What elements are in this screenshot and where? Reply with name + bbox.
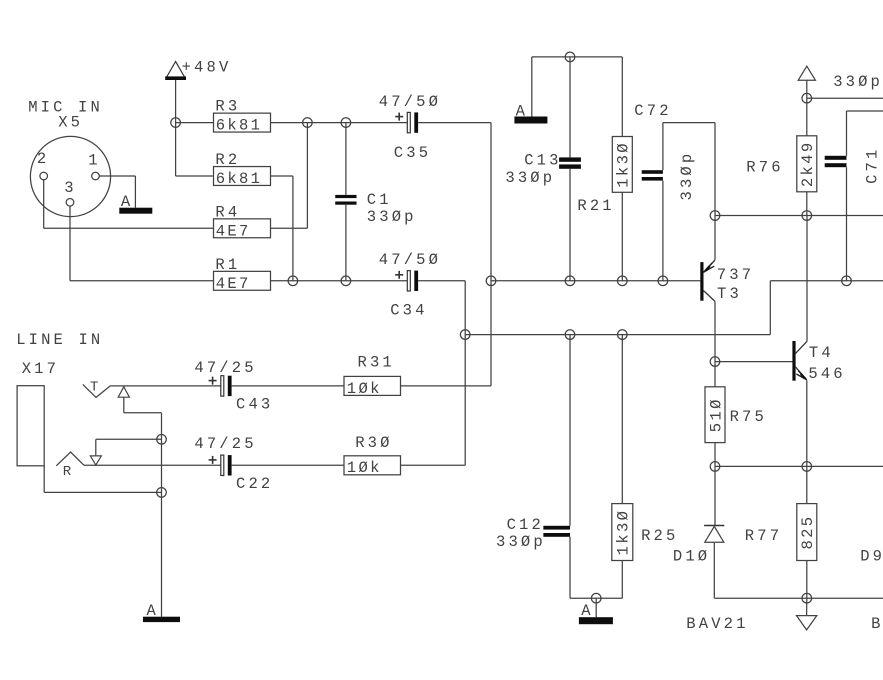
svg-text:R21: R21 bbox=[577, 197, 614, 215]
X5 pin 3 bbox=[64, 179, 76, 206]
label MIC IN bbox=[28, 98, 103, 116]
diode D10 bbox=[673, 526, 724, 566]
node R1/C1 bbox=[341, 276, 351, 286]
wire R21 bottom bbox=[621, 192, 623, 280]
svg-text:R75: R75 bbox=[730, 408, 767, 426]
resistor R4 bbox=[214, 203, 271, 240]
node supply/330p row bbox=[802, 93, 812, 103]
svg-text:R3Ø: R3Ø bbox=[355, 434, 392, 452]
svg-text:47/25: 47/25 bbox=[194, 435, 256, 453]
svg-text:R2: R2 bbox=[215, 151, 240, 169]
svg-text:1Øk: 1Øk bbox=[347, 459, 382, 477]
svg-text:C34: C34 bbox=[390, 301, 427, 319]
wire R3 out bbox=[271, 122, 408, 124]
node C71/netA bbox=[842, 276, 852, 286]
node C13/T3base bbox=[565, 276, 575, 286]
wire R31 out bbox=[401, 385, 492, 387]
X17 ring switch arrow bbox=[90, 439, 161, 465]
svg-text:R76: R76 bbox=[746, 159, 783, 177]
ground A (top) bbox=[514, 102, 547, 123]
svg-text:4E7: 4E7 bbox=[216, 222, 251, 240]
wire R75 bottom bbox=[714, 443, 716, 467]
svg-text:R4: R4 bbox=[215, 203, 240, 221]
node C34/netA bbox=[460, 330, 470, 340]
svg-text:C35: C35 bbox=[394, 144, 431, 162]
wire T3 collector down bbox=[714, 301, 716, 361]
capacitor C35 bbox=[379, 93, 441, 162]
svg-text:3: 3 bbox=[64, 179, 76, 197]
wire supply down bbox=[806, 80, 808, 136]
wire T4 collector up bbox=[806, 216, 808, 342]
node C35/T3base bbox=[486, 276, 496, 286]
transistor T3 bbox=[700, 260, 754, 303]
connector X17 body bbox=[17, 386, 44, 466]
node R3/C1 bbox=[341, 118, 351, 128]
wire R77 bottom bbox=[806, 561, 808, 599]
wire C35 out bbox=[418, 123, 491, 386]
svg-text:51Ø: 51Ø bbox=[707, 397, 725, 432]
wire R4 out bbox=[271, 123, 308, 229]
wire T3 emitter up bbox=[714, 216, 716, 260]
resistor R76 bbox=[746, 136, 817, 192]
wire R75 top bbox=[714, 362, 716, 387]
resistor R1 bbox=[214, 256, 271, 293]
capacitor C72 bbox=[642, 151, 696, 201]
node tip-sw bbox=[157, 435, 167, 445]
wire to R3 bbox=[176, 122, 214, 124]
svg-text:47/5Ø: 47/5Ø bbox=[379, 251, 441, 269]
wire R25 top bbox=[621, 335, 623, 504]
connector X5 (XLR) body circle bbox=[30, 136, 110, 216]
svg-text:BAV21: BAV21 bbox=[686, 615, 748, 633]
node T3col/T4base/R75 bbox=[710, 357, 720, 367]
wire 330p row bbox=[807, 97, 883, 99]
node R3/R4 bbox=[303, 118, 313, 128]
svg-text:R: R bbox=[63, 464, 75, 480]
capacitor C12 bbox=[496, 516, 570, 551]
wire R76 bottom bbox=[806, 192, 808, 216]
node +48V/R3 bbox=[171, 118, 181, 128]
wire T3 base row bbox=[491, 280, 700, 282]
svg-text:33Øp: 33Øp bbox=[678, 151, 696, 201]
svg-text:R77: R77 bbox=[745, 527, 782, 545]
wire C71 bottom bbox=[846, 167, 848, 281]
svg-text:X17: X17 bbox=[22, 360, 59, 378]
svg-text:33Øp: 33Øp bbox=[505, 169, 555, 187]
wire R77 top bbox=[806, 466, 808, 503]
resistor R77 bbox=[745, 504, 817, 561]
resistor R3 bbox=[214, 98, 271, 135]
svg-text:R1: R1 bbox=[215, 256, 240, 274]
resistor R31 bbox=[344, 353, 401, 397]
svg-text:C43: C43 bbox=[236, 395, 273, 413]
capacitor C13 bbox=[505, 152, 580, 188]
svg-text:R31: R31 bbox=[358, 353, 395, 371]
wire +48V down bbox=[175, 80, 177, 176]
wire C71 top bbox=[847, 111, 883, 156]
wire C13 bottom bbox=[569, 169, 571, 281]
supply triangle down (bottom) bbox=[797, 598, 817, 630]
wire T4 base bbox=[715, 361, 793, 363]
svg-text:T4: T4 bbox=[809, 344, 834, 362]
node gnd (bottom mid) bbox=[591, 593, 601, 603]
resistor R25 bbox=[612, 504, 679, 561]
svg-text:D9: D9 bbox=[860, 547, 883, 565]
svg-text:825: 825 bbox=[799, 515, 817, 550]
svg-text:737: 737 bbox=[717, 266, 754, 284]
wire C72 top bbox=[663, 123, 715, 216]
capacitor C71 bbox=[825, 147, 882, 184]
wire bottom rail right bbox=[714, 597, 883, 599]
capacitor C1 bbox=[335, 191, 416, 226]
wire net-A row bbox=[465, 281, 883, 335]
supply triangle (top right) bbox=[798, 66, 815, 80]
X5 pin 1 bbox=[88, 152, 100, 180]
wire D10 down bbox=[713, 543, 715, 598]
wire gnd-C13 row bbox=[532, 57, 623, 117]
node R21/T3base bbox=[618, 276, 628, 286]
supply +48V symbol bbox=[165, 59, 231, 81]
label D9 bbox=[860, 547, 883, 565]
wire C43 out bbox=[232, 385, 344, 387]
wire C22 out bbox=[232, 464, 344, 466]
svg-text:A: A bbox=[581, 602, 593, 620]
capacitor C43 bbox=[194, 359, 273, 414]
svg-text:X5: X5 bbox=[58, 113, 83, 131]
wire R75node to D10 bbox=[714, 466, 716, 525]
node R75/D10 bbox=[710, 462, 720, 472]
svg-text:BAV21: BAV21 bbox=[871, 615, 883, 633]
svg-text:R25: R25 bbox=[641, 527, 678, 545]
node C72/T3emitter bbox=[710, 211, 720, 221]
svg-text:C12: C12 bbox=[507, 516, 544, 534]
svg-text:546: 546 bbox=[808, 365, 845, 383]
ground A (mic) bbox=[119, 193, 152, 214]
wire sleeve bbox=[44, 466, 161, 493]
wire C34 out bbox=[418, 281, 465, 466]
svg-text:33Øp: 33Øp bbox=[367, 208, 417, 226]
label 330p (top right) bbox=[833, 73, 883, 91]
wire C1 bottom bbox=[345, 205, 347, 281]
svg-text:A: A bbox=[121, 193, 133, 211]
svg-text:A: A bbox=[147, 602, 159, 620]
label BAV21 (D10) bbox=[686, 615, 748, 633]
wire T3emitter row bbox=[715, 215, 883, 217]
svg-text:33Øp: 33Øp bbox=[496, 533, 546, 551]
svg-text:R3: R3 bbox=[215, 98, 240, 116]
resistor R2 bbox=[214, 151, 271, 188]
node C72/T3base bbox=[658, 276, 668, 286]
svg-text:C1: C1 bbox=[367, 191, 392, 209]
wire tip row bbox=[110, 385, 221, 387]
wire C12 bottom bbox=[570, 537, 622, 598]
node R76/T4col bbox=[802, 211, 812, 221]
node gnd/C13 bbox=[565, 52, 575, 62]
wire C72 bottom bbox=[662, 181, 664, 281]
svg-text:2: 2 bbox=[37, 150, 49, 168]
wire C13 top bbox=[569, 57, 571, 157]
svg-text:LINE IN: LINE IN bbox=[16, 331, 103, 349]
svg-text:6k81: 6k81 bbox=[216, 117, 263, 135]
wire R25 bottom bbox=[621, 561, 623, 599]
resistor R75 bbox=[705, 387, 767, 443]
svg-text:1: 1 bbox=[88, 152, 100, 170]
X17 tip contact bbox=[83, 380, 111, 398]
wire pin2 down to R4 row bbox=[44, 180, 214, 229]
node sleeve bbox=[157, 488, 167, 498]
wire T4 emitter down bbox=[806, 380, 808, 466]
capacitor C22 bbox=[194, 435, 273, 493]
wire R30 out bbox=[401, 464, 466, 466]
wire pin3 down to R1 row bbox=[70, 206, 214, 281]
wire to R2 bbox=[176, 175, 214, 177]
svg-text:2k49: 2k49 bbox=[799, 140, 817, 187]
svg-text:C72: C72 bbox=[634, 102, 671, 120]
svg-text:+48V: +48V bbox=[182, 59, 232, 77]
svg-text:47/25: 47/25 bbox=[194, 359, 256, 377]
resistor R21 bbox=[577, 137, 632, 215]
label BAV21 (D9) bbox=[871, 615, 883, 633]
wire C1 top bbox=[345, 123, 347, 195]
transistor T4 bbox=[792, 341, 845, 383]
node rail/arrow bbox=[802, 593, 812, 603]
svg-text:A: A bbox=[516, 102, 528, 120]
wire R21 top bbox=[621, 57, 623, 137]
wire R75row right bbox=[715, 465, 883, 467]
label X17 bbox=[22, 360, 59, 378]
X17 tip switch arrow bbox=[118, 387, 161, 440]
svg-text:1k3Ø: 1k3Ø bbox=[615, 141, 633, 188]
capacitor C34 bbox=[379, 251, 441, 320]
svg-text:T: T bbox=[90, 380, 102, 396]
svg-text:C22: C22 bbox=[236, 475, 273, 493]
wire ring row bbox=[84, 464, 221, 466]
node R1/R2 bbox=[288, 276, 298, 286]
ground A (bottom mid) bbox=[579, 598, 613, 624]
ground A (line in) bbox=[143, 602, 180, 622]
node T4emitter/R77 bbox=[802, 462, 812, 472]
svg-text:1k3Ø: 1k3Ø bbox=[615, 509, 633, 556]
label C72 bbox=[634, 102, 671, 120]
svg-text:47/5Ø: 47/5Ø bbox=[379, 93, 441, 111]
wire C12 top bbox=[569, 335, 571, 526]
svg-text:6k81: 6k81 bbox=[216, 170, 263, 188]
svg-text:1Øk: 1Øk bbox=[347, 380, 382, 398]
wire R1 out bbox=[271, 280, 408, 282]
X17 ring contact bbox=[56, 452, 84, 480]
label LINE IN bbox=[16, 331, 103, 349]
label X5 bbox=[58, 113, 83, 131]
resistor R30 bbox=[344, 434, 401, 477]
wire pin1 to ground bbox=[99, 176, 135, 208]
svg-text:C71: C71 bbox=[864, 147, 882, 184]
node netA/C12 bbox=[565, 330, 575, 340]
svg-text:33Øp: 33Øp bbox=[833, 73, 883, 91]
svg-text:T3: T3 bbox=[717, 285, 742, 303]
svg-text:C13: C13 bbox=[524, 152, 561, 170]
svg-text:D1Ø: D1Ø bbox=[673, 547, 710, 565]
svg-text:4E7: 4E7 bbox=[216, 275, 251, 293]
wire sleeve to ground bbox=[161, 439, 163, 616]
node netA/R25 bbox=[618, 330, 628, 340]
X5 pin 2 bbox=[37, 150, 49, 180]
wire R2 out bbox=[271, 176, 293, 281]
